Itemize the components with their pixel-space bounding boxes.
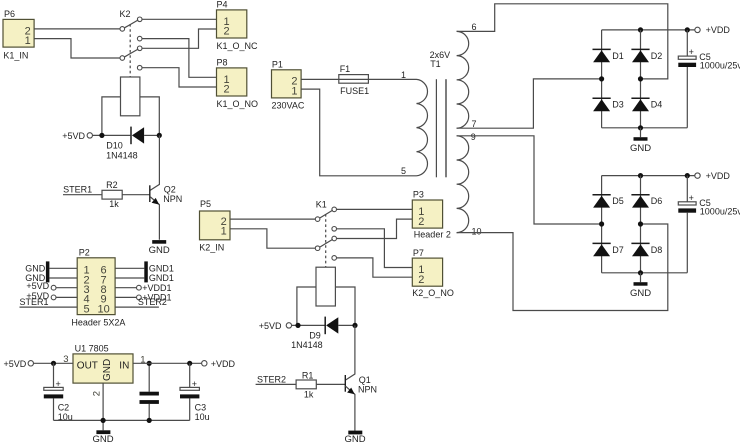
ground (bridge1) (630, 128, 651, 154)
terminal +VDD1 pin8 (115, 283, 171, 293)
capacitor C2 10u (44, 363, 73, 422)
terminal +VDD1 pin9 (115, 293, 171, 303)
svg-text:GND: GND (149, 245, 170, 256)
svg-text:1: 1 (401, 70, 406, 80)
svg-text:R2: R2 (106, 180, 118, 190)
wire D1 branch (601, 30, 603, 128)
svg-text:R1: R1 (302, 371, 314, 381)
transformer T1 secondary winding 1 (457, 22, 477, 129)
wire P2 pin1 (49, 267, 77, 269)
connector P6 (3, 9, 34, 60)
svg-text:10: 10 (472, 227, 482, 237)
wire K1 NC1 to P3 pin1 (337, 208, 413, 210)
svg-text:D8: D8 (651, 245, 663, 255)
svg-text:K1_IN: K1_IN (3, 50, 28, 60)
svg-text:STER1: STER1 (20, 297, 49, 307)
wire P5 pin2 to K1 common1 (231, 218, 316, 220)
wire fuse to primary (368, 78, 416, 80)
wire U1 GND pin (102, 383, 104, 430)
svg-text:F1: F1 (340, 64, 351, 74)
node C3 top (187, 361, 192, 366)
svg-text:STER1: STER1 (63, 184, 92, 194)
svg-text:+: + (56, 379, 61, 389)
header P2 (71, 248, 125, 328)
diode D9 1N4148 (291, 317, 338, 351)
bottom rail bridge2 (602, 272, 688, 274)
svg-text:P8: P8 (217, 58, 228, 68)
svg-text:C3: C3 (195, 402, 207, 412)
svg-text:1N4148: 1N4148 (291, 340, 323, 350)
diode D4 (631, 98, 662, 111)
diode D6 (631, 195, 662, 208)
relay switch K2 (120, 9, 143, 77)
wire P6 pin2 to K2 common1 (34, 28, 120, 30)
svg-text:P3: P3 (413, 190, 424, 200)
diode D8 (631, 243, 662, 256)
wire K1 NO2 to P7 pin2 (337, 258, 413, 277)
wire Q1 collector vertical (345, 325, 355, 380)
GND1 bus bar right (144, 261, 148, 282)
net STER1 (63, 184, 102, 194)
svg-text:P1: P1 (272, 60, 283, 70)
wire P2 pin2 (49, 277, 77, 279)
node D6 top (638, 173, 643, 178)
diode D7 (593, 243, 624, 256)
wire +5VD to D10 (93, 134, 131, 136)
ground (Q2) (149, 240, 170, 256)
svg-text:GND: GND (102, 359, 113, 381)
svg-text:5: 5 (401, 166, 406, 176)
wire K2 NO2 to P8 pin2 (142, 68, 216, 87)
svg-text:+5VD: +5VD (259, 321, 282, 331)
wire P5 pin1 to K1 common2 (231, 229, 316, 248)
svg-text:+5VD: +5VD (4, 359, 27, 369)
connector P3 (412, 190, 451, 240)
wire K1 NO1 to P7 pin1 (337, 229, 413, 268)
svg-text:T1: T1 (430, 59, 441, 69)
svg-text:6: 6 (472, 22, 477, 32)
wire R1 to Q1 base (316, 383, 345, 385)
svg-text:OUT: OUT (77, 361, 98, 372)
wire K2 NC2 to P4 pin2 (142, 29, 216, 48)
wire coil left tap (102, 97, 121, 135)
svg-text:+VDD1: +VDD1 (142, 283, 171, 293)
wire U1 IN to +VDD (133, 362, 202, 364)
resistor R1 (296, 371, 316, 400)
svg-text:U1 7805: U1 7805 (75, 344, 109, 354)
svg-text:D10: D10 (106, 141, 123, 151)
regulator U1 7805 (73, 344, 133, 384)
svg-text:+: + (689, 193, 694, 203)
svg-text:1: 1 (140, 354, 145, 365)
svg-text:2: 2 (223, 84, 229, 96)
svg-text:+5VD: +5VD (26, 281, 49, 291)
transistor Q2 (150, 184, 183, 239)
node C5 top tap (685, 27, 690, 32)
node D10 cathode-right (157, 133, 162, 138)
svg-text:K1: K1 (316, 199, 327, 209)
terminal +VDD (top) (695, 25, 731, 35)
svg-text:D6: D6 (651, 196, 663, 206)
connector P4 (217, 0, 259, 51)
terminal +5VD pin4 (26, 291, 77, 301)
svg-text:+VDD: +VDD (706, 171, 731, 181)
connector P1 (272, 60, 305, 111)
svg-text:GND: GND (630, 288, 651, 299)
svg-text:GND: GND (25, 264, 46, 274)
svg-text:GND1: GND1 (149, 264, 174, 274)
svg-text:Header 5X2A: Header 5X2A (71, 318, 125, 328)
terminal +5VD (K2) (62, 131, 92, 141)
wire P1 pin2 to fuse (301, 78, 339, 80)
resistor R2 (102, 180, 122, 209)
svg-text:D5: D5 (612, 196, 624, 206)
svg-text:K2_O_NO: K2_O_NO (412, 288, 454, 298)
wire D9 to collector node (338, 324, 355, 326)
svg-text:+: + (192, 379, 197, 389)
svg-text:IN: IN (119, 361, 129, 372)
diode D10 1N4148 (106, 127, 144, 161)
connector P7 (412, 248, 454, 298)
wire coil right tap (140, 97, 159, 135)
svg-text:P2: P2 (79, 248, 90, 258)
svg-text:10: 10 (97, 303, 109, 315)
wire pin10 to bottom bridge AC2 (457, 224, 668, 311)
svg-text:2: 2 (91, 391, 102, 396)
svg-text:STER2: STER2 (138, 297, 167, 307)
ground (U1) (93, 430, 114, 445)
transformer T1 secondary winding 2 (457, 132, 482, 237)
node bridge2 AC1 (599, 221, 604, 226)
wire pin6 to top bridge AC2 (457, 4, 668, 79)
connector P8 (217, 58, 259, 110)
transformer T1 primary winding (401, 70, 428, 176)
relay coil K1 (316, 267, 335, 306)
wire P2 pin7 (115, 277, 144, 279)
svg-text:P4: P4 (217, 0, 228, 10)
svg-text:D1: D1 (612, 51, 624, 61)
diode D5 (593, 195, 624, 208)
svg-text:P5: P5 (200, 199, 211, 209)
terminal +5VD pin3 (26, 281, 77, 291)
node D9 right (352, 323, 357, 328)
svg-text:1: 1 (221, 226, 227, 238)
svg-text:Q1: Q1 (359, 375, 371, 385)
node U1 gnd (101, 418, 106, 423)
node D10 anode-left (99, 133, 104, 138)
wire K2 NC1 to P4 pin1 (142, 18, 216, 20)
net STER2 pin10 (115, 297, 167, 307)
svg-text:+VDD: +VDD (706, 25, 731, 35)
svg-text:1k: 1k (304, 390, 314, 400)
terminal +5VD (U1) (4, 359, 34, 369)
svg-text:GND: GND (344, 434, 365, 445)
wire D2 branch (640, 30, 642, 128)
svg-text:9: 9 (471, 132, 476, 142)
svg-text:5: 5 (84, 303, 90, 315)
wire pin7 to top bridge AC1 (457, 79, 600, 128)
node bridge2 gnd (638, 270, 643, 275)
terminal +VDD (U1) (202, 359, 236, 369)
ground (bridge2) (630, 273, 651, 299)
capacitor C5 (bottom) 1000u/25V (678, 176, 740, 273)
svg-text:D7: D7 (612, 245, 624, 255)
svg-text:D2: D2 (651, 51, 663, 61)
svg-text:1: 1 (291, 85, 297, 97)
node C1 bottom (147, 418, 152, 423)
wire R2 to Q2 base (122, 194, 149, 196)
transformer T1 core (430, 50, 451, 177)
svg-text:2: 2 (418, 216, 424, 228)
wire ground rail (54, 419, 190, 421)
svg-text:D9: D9 (309, 330, 321, 340)
wire +5VD to U1 OUT (34, 362, 74, 364)
svg-text:Header 2: Header 2 (414, 230, 451, 240)
svg-text:FUSE1: FUSE1 (340, 86, 369, 96)
net STER2 (256, 374, 297, 384)
svg-text:1: 1 (25, 35, 31, 47)
relay switch K1 (315, 199, 336, 267)
ground (Q1) (344, 431, 365, 445)
fuse F1 FUSE1 (339, 64, 369, 96)
connector P5 (199, 199, 230, 252)
node C2 top (51, 361, 56, 366)
terminal +5VD (K1) (259, 321, 292, 331)
bottom bridge rail +VDD (602, 175, 695, 177)
GND bus bar left (46, 261, 50, 282)
svg-text:2: 2 (418, 274, 424, 286)
svg-text:+: + (689, 47, 694, 57)
diode D3 (593, 98, 624, 111)
svg-text:NPN: NPN (358, 385, 377, 395)
svg-text:1k: 1k (109, 199, 119, 209)
svg-text:K2_IN: K2_IN (199, 242, 224, 252)
node D9 left (295, 323, 300, 328)
svg-text:STER2: STER2 (257, 374, 286, 384)
wire +5VD to D9 (292, 324, 325, 326)
net STER1 pin5 (20, 297, 78, 307)
svg-text:P6: P6 (4, 9, 15, 19)
svg-text:K2: K2 (120, 9, 131, 19)
wire pin9 to bottom bridge AC1 (457, 136, 600, 224)
capacitor C1 (140, 363, 159, 420)
svg-text:D4: D4 (651, 100, 663, 110)
svg-text:GND: GND (630, 143, 651, 154)
node C5b top tap (685, 173, 690, 178)
wire K1 NC2 to P3 pin2 (337, 219, 413, 238)
wire primary return pin5 (301, 89, 416, 176)
wire D10 to collector node (144, 134, 159, 136)
node bridge1 gnd (638, 125, 643, 130)
svg-text:1N4148: 1N4148 (106, 151, 138, 161)
svg-text:K1_O_NO: K1_O_NO (217, 99, 259, 109)
node D2 top (638, 27, 643, 32)
transistor Q1 (345, 375, 377, 431)
svg-text:7: 7 (472, 119, 477, 129)
svg-text:10u: 10u (195, 412, 210, 422)
svg-text:+VDD: +VDD (211, 359, 236, 369)
node C1 top (147, 361, 152, 366)
svg-text:GND: GND (93, 434, 114, 445)
svg-text:+5VD: +5VD (62, 131, 85, 141)
capacitor C5 (top) 1000u/25V (678, 30, 740, 128)
terminal +VDD (bottom) (695, 171, 731, 181)
wire D5 branch (601, 176, 603, 273)
diode D1 (593, 49, 624, 62)
svg-text:D3: D3 (612, 100, 624, 110)
svg-text:2: 2 (223, 26, 229, 38)
top bridge rail +VDD (602, 29, 695, 31)
wire D6 branch (640, 176, 642, 273)
capacitor C3 10u (180, 363, 210, 422)
wire collector vertical (150, 135, 160, 190)
diode D2 (631, 49, 662, 62)
svg-text:C2: C2 (58, 402, 70, 412)
wire K2 NO1 to P8 pin1 (142, 39, 216, 78)
svg-text:K1_O_NC: K1_O_NC (217, 41, 259, 51)
svg-text:230VAC: 230VAC (272, 101, 305, 111)
node bridge1 AC2 (638, 76, 643, 81)
node bridge1 AC1 (599, 76, 604, 81)
svg-text:1000u/25v: 1000u/25v (700, 207, 740, 217)
svg-text:GND1: GND1 (149, 273, 174, 283)
wire coil K1 right tap (335, 287, 355, 325)
node bridge2 AC2 (638, 221, 643, 226)
svg-text:P7: P7 (413, 248, 424, 258)
relay coil K2 (121, 77, 140, 116)
svg-text:1000u/25v: 1000u/25v (700, 61, 740, 71)
wire P6 pin1 to K2 common2 (34, 39, 120, 58)
bottom rail bridge1 (602, 127, 688, 129)
wire P2 pin6 (115, 267, 144, 269)
svg-text:NPN: NPN (163, 194, 182, 204)
wire coil K1 left tap (297, 287, 316, 325)
